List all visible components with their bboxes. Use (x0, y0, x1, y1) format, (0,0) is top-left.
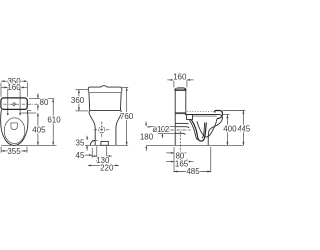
hinge extension line to 405 (21, 112, 36, 114)
svg-text:405: 405 (32, 125, 46, 134)
seat inner oval (4, 118, 25, 144)
dimension 80 (side) (166, 151, 186, 160)
dimension 350 (1, 77, 27, 97)
svg-text:360: 360 (71, 96, 85, 105)
drain outlet rect (front) (101, 141, 108, 145)
dimension 80 (plan) (37, 93, 49, 110)
bowl outer outline (plan) (1, 110, 28, 146)
dimension 445 (238, 111, 251, 146)
cistern lid (side) (175, 87, 187, 90)
svg-text:180: 180 (140, 133, 154, 142)
cistern body (front) (89, 92, 121, 110)
tank centerline dash-dot (3, 103, 38, 105)
drain vertical centerline (179, 131, 181, 162)
svg-text:ø102: ø102 (153, 125, 170, 134)
svg-text:610: 610 (47, 116, 61, 125)
svg-text:35: 35 (76, 139, 85, 148)
svg-text:760: 760 (120, 112, 134, 121)
center diamond (13, 103, 16, 106)
cistern lid (front) (88, 86, 122, 92)
front floor line (85, 144, 128, 146)
outlet pipe bottom edge + extension (158, 132, 175, 134)
seat cover dotted line (187, 111, 214, 113)
dimension 160 (side) (167, 72, 193, 87)
seat hinge dash right of tank (28, 110, 31, 112)
svg-text:80: 80 (40, 98, 49, 107)
bowl front profile (208, 115, 222, 146)
bowl rim lines (side) (185, 114, 220, 116)
seat top extension (223, 110, 246, 112)
rear extension line (173, 147, 175, 172)
seat front cap (215, 111, 223, 119)
bolt hole centerlines (7, 89, 9, 116)
dimension 35 (76, 136, 89, 151)
svg-text:160: 160 (173, 72, 187, 81)
outlet pipe top edge + extension (148, 126, 175, 128)
pipe centerline dash-dot (153, 129, 191, 131)
dimension 400 (223, 115, 237, 146)
dimension o102 (145, 122, 170, 139)
dimension 360 (71, 90, 88, 111)
svg-text:160: 160 (7, 83, 21, 92)
svg-text:445: 445 (238, 125, 250, 134)
flush valve boss (187, 115, 193, 120)
weir line (175, 122, 188, 124)
svg-text:220: 220 (100, 163, 114, 172)
dimension 180 (140, 133, 154, 151)
dimension 355 (1, 147, 27, 156)
tank top extension line (29, 98, 54, 100)
cistern tank (plan) (1, 98, 27, 110)
dimension 165 (166, 159, 193, 169)
dimension 130 (92, 146, 113, 165)
trap inner wall (189, 120, 198, 140)
bottom tangent line (1, 144, 56, 146)
water inlet arc (90, 140, 95, 145)
seat hinge dots (7, 113, 9, 115)
svg-text:400: 400 (223, 125, 237, 134)
floor line (146, 144, 243, 146)
water cup (11, 123, 17, 130)
dimension 45 (76, 148, 93, 160)
drain crosshair (94, 122, 110, 139)
svg-text:485: 485 (186, 167, 200, 176)
cistern body (side) (175, 90, 186, 113)
rim top extension (223, 113, 230, 115)
dimension 760 (120, 87, 134, 145)
trap outer wall (191, 120, 206, 141)
dimension 405 (32, 113, 46, 145)
dimension 610 (47, 99, 61, 146)
rear face (174, 114, 176, 146)
bowl interior cup (197, 119, 217, 137)
dimension 220 (88, 163, 119, 172)
dimension 485 (174, 147, 211, 176)
dimension 160 (2, 83, 27, 92)
svg-text:355: 355 (7, 147, 21, 156)
svg-text:45: 45 (76, 151, 85, 160)
pedestal outline (front) (89, 110, 95, 145)
